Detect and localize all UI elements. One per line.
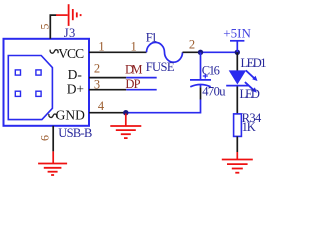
bottom-left power ground bar 1: [38, 163, 67, 165]
resistor R34 body: [234, 114, 242, 136]
svg-text:1: 1: [130, 40, 136, 54]
svg-text:FUSE: FUSE: [146, 60, 175, 74]
svg-text:F1: F1: [146, 31, 158, 45]
wire node A to node B: [201, 51, 238, 53]
bottom-left power ground bar 4: [51, 174, 54, 176]
LED1 triangle: [230, 71, 246, 84]
wire node B down to LED: [236, 52, 238, 71]
mid power ground bar 4: [124, 137, 128, 139]
bottom-left power ground stem: [52, 151, 54, 163]
squiggle before GND: [49, 114, 57, 118]
top power ground bar 3: [76, 12, 78, 17]
svg-text:GND: GND: [56, 108, 85, 123]
top power ground bar 4: [80, 14, 82, 16]
right power ground bar 4: [235, 172, 239, 174]
right power ground bar 3: [232, 168, 243, 170]
bottom-left power ground bar 3: [48, 171, 58, 173]
svg-text:D+: D+: [67, 81, 84, 96]
wire fuse to node A: [183, 51, 201, 53]
right power ground bar 2: [227, 163, 248, 165]
wire LED to R34: [236, 87, 238, 114]
bottom-left power ground bar 2: [44, 167, 62, 169]
svg-text:6: 6: [38, 135, 52, 141]
right power ground bar 1: [222, 159, 253, 161]
mid power ground bar 2: [116, 129, 136, 131]
svg-text:DM: DM: [125, 62, 143, 76]
wire C16 to ground rail corner: [126, 100, 201, 113]
LED1 arrow 2: [245, 82, 257, 93]
connector contact square 1: [15, 70, 20, 75]
svg-text:+5IN: +5IN: [223, 26, 251, 41]
fuse F1 body: [147, 42, 183, 62]
wire C16 pin (black): [200, 87, 202, 99]
mid power ground bar 3: [121, 133, 131, 135]
wire D- row black: [89, 77, 126, 79]
capacitor C16 top plate: [190, 79, 211, 81]
wire node A down to C16: [200, 52, 202, 79]
wire C16 bottom stub (blue): [200, 85, 202, 87]
svg-text:1K: 1K: [242, 120, 256, 134]
connector contact square 2: [36, 70, 41, 75]
pin 5 wire (top): [50, 15, 56, 39]
LED1 cathode bar: [226, 85, 248, 87]
connector J3 USB-B inner shape: [8, 56, 52, 120]
svg-text:470u: 470u: [202, 84, 226, 98]
power port +5IN bar: [230, 40, 244, 42]
squiggle before VCC: [50, 50, 58, 54]
svg-text:2: 2: [94, 61, 100, 75]
svg-text:DP: DP: [125, 77, 140, 91]
top power ground stem: [56, 14, 68, 16]
wire R34 to ground: [236, 136, 238, 152]
top power ground bar 1: [68, 4, 70, 26]
svg-text:4: 4: [98, 99, 105, 113]
wire D- row blue: [126, 77, 156, 79]
capacitor C16 plus sign: [203, 74, 208, 79]
connector J3 outer box: [4, 39, 90, 126]
svg-text:LED: LED: [240, 87, 260, 101]
right power ground stem: [236, 152, 238, 159]
mid power ground stem: [125, 114, 127, 127]
wire D+ row blue: [126, 89, 156, 91]
junction node A: [198, 50, 203, 55]
wire VCC row (pin1 to fuse): [89, 51, 147, 53]
svg-text:2: 2: [189, 38, 195, 52]
capacitor C16 bottom curved plate: [190, 85, 210, 87]
wire D+ row black: [89, 89, 126, 91]
LED1 arrow 1: [246, 70, 258, 81]
svg-text:USB-B: USB-B: [58, 126, 92, 140]
connector contact square 4: [36, 91, 41, 96]
svg-text:D-: D-: [68, 67, 83, 82]
pin 6 wire (bottom): [52, 126, 54, 152]
svg-text:J3: J3: [64, 26, 76, 40]
power port +5IN stem: [236, 41, 238, 53]
svg-text:C16: C16: [202, 64, 220, 78]
wire GND row black: [89, 112, 126, 114]
junction node C: [123, 110, 128, 115]
svg-text:LED1: LED1: [241, 56, 267, 70]
top power ground bar 2: [72, 9, 74, 20]
svg-text:5: 5: [37, 24, 51, 30]
svg-text:VCC: VCC: [58, 46, 84, 61]
mid power ground bar 1: [110, 125, 141, 127]
junction node B: [235, 50, 240, 55]
connector contact square 3: [15, 91, 20, 96]
